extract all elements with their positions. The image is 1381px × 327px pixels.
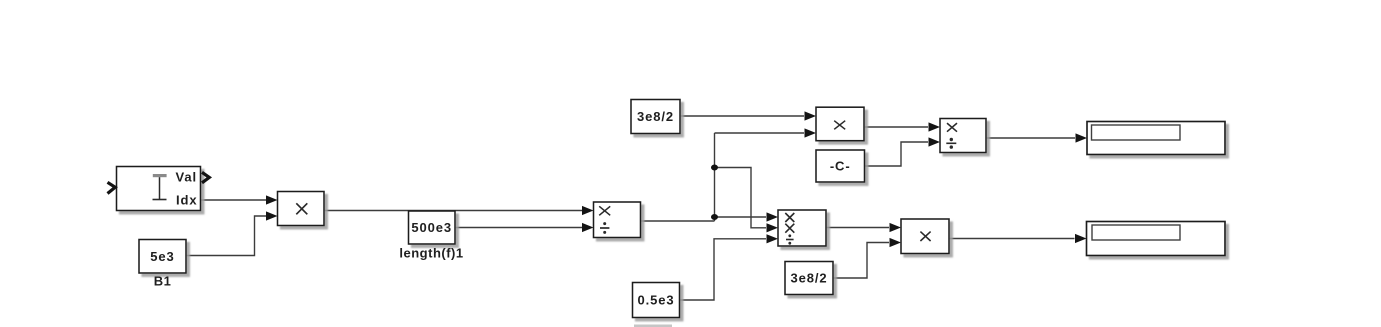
wire product P1 to divide D1 <box>324 206 594 215</box>
constant 3e8/2 bottom <box>785 262 833 295</box>
divide D2 <box>940 119 986 153</box>
wire multiply M1 to divide D2 <box>865 122 941 131</box>
constant B1 value 5e3 <box>139 240 186 274</box>
wire constant -C- to divide D2 <box>865 137 941 166</box>
min/max block with Val and Idx outputs <box>117 167 201 211</box>
divide D1 <box>594 202 641 238</box>
wire multiply M2 to display block 2 <box>949 234 1087 243</box>
product P2 (3 inputs) <box>778 210 826 246</box>
wire net to product P2 second input <box>715 168 779 233</box>
svg-text:Idx: Idx <box>176 193 197 208</box>
svg-text:-C-: -C- <box>830 159 851 174</box>
unconnected input chevron of min/max block <box>108 182 116 193</box>
wire constant 3e8/2 bottom to multiply M2 <box>833 238 901 278</box>
svg-text:5e3: 5e3 <box>150 249 174 264</box>
wire Idx to product P1 <box>201 195 278 204</box>
wire net to top multiply M1 second input <box>715 128 817 137</box>
display block 1 <box>1087 122 1225 155</box>
wire product P2 to multiply M2 <box>826 223 901 232</box>
product P1 <box>278 192 325 226</box>
wire divide D1 output to junction net <box>641 220 715 222</box>
constant -C- <box>816 150 865 182</box>
unconnected Val output chevron <box>202 172 209 183</box>
wire constant 500e3 to divide D1 <box>455 223 594 232</box>
constant 500e3 <box>409 211 456 244</box>
wire vertical net riser <box>714 133 716 221</box>
display block 2 <box>1087 222 1226 256</box>
wire divide D2 to display block 1 <box>986 133 1087 142</box>
clipped label below 0.5e3 <box>634 325 672 327</box>
svg-text:B1: B1 <box>154 274 172 289</box>
wire constant B1 to product P1 <box>186 211 278 255</box>
multiply M1 <box>816 107 864 141</box>
constant 0.5e3 <box>633 283 680 318</box>
svg-text:3e8/2: 3e8/2 <box>637 109 674 124</box>
svg-text:length(f)1: length(f)1 <box>399 246 463 261</box>
wire net to product P2 first input <box>715 212 779 221</box>
node junction dot upper <box>711 165 718 171</box>
constant 3e8/2 top <box>631 100 680 134</box>
svg-text:3e8/2: 3e8/2 <box>790 271 827 286</box>
svg-text:Val: Val <box>176 170 198 185</box>
wire constant 3e8/2 top to multiply M1 <box>680 111 816 120</box>
svg-text:500e3: 500e3 <box>411 220 452 235</box>
node junction dot lower <box>711 214 718 220</box>
wire constant 0.5e3 to product P2 third input <box>680 234 779 300</box>
svg-text:0.5e3: 0.5e3 <box>637 293 674 308</box>
multiply M2 <box>901 219 949 254</box>
